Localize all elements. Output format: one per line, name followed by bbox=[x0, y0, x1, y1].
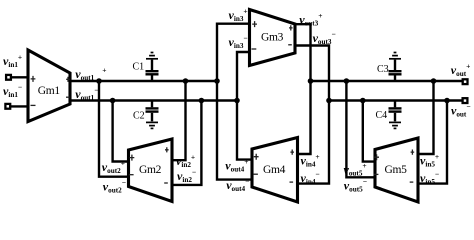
node A- : bottom bus wire bbox=[69, 99, 237, 101]
capacitor C2 bbox=[151, 101, 153, 108]
wire: A- down to v_out2+ of Gm2 bbox=[113, 101, 129, 162]
svg-text:Gm2: Gm2 bbox=[139, 164, 162, 176]
wire: v_out3+ of Gm3 to B+ and down to v_in4+ of Gm4 bbox=[295, 24, 311, 154]
junction dot B- / v_out5+ bbox=[360, 98, 366, 104]
wire: A- down to v_in2- of Gm2 bbox=[172, 101, 201, 185]
wire: A+ down to v_in2+ of Gm2 bbox=[172, 81, 186, 160]
junction dot A+ / v_out2- bbox=[96, 78, 102, 84]
op-amp Gm3 bbox=[250, 10, 296, 66]
wire: B+ down to v_in5+ of Gm5 bbox=[418, 81, 434, 154]
terminal square v_out- bbox=[463, 98, 468, 103]
capacitor C1 bbox=[151, 75, 153, 81]
junction dot B+ / v_in5+ bbox=[431, 78, 437, 84]
junction dot B- / v_out3- bbox=[326, 98, 332, 104]
wire: B+ down to v_out5- of Gm5 bbox=[346, 81, 375, 177]
wire: B- down to v_out5+ of Gm5 bbox=[363, 101, 376, 162]
junction dot A+ / v_in2+ bbox=[183, 78, 189, 84]
junction dot A- / v_in3- bbox=[234, 98, 240, 104]
capacitor C3 bbox=[394, 75, 396, 81]
node A+ : top bus wire (Gm1 output to v_in3+ drop) bbox=[69, 80, 217, 82]
svg-text:Gm3: Gm3 bbox=[261, 32, 284, 44]
terminal square v_out+ bbox=[463, 79, 468, 84]
ground below C2 bbox=[146, 122, 158, 128]
svg-text:Gm4: Gm4 bbox=[263, 164, 286, 176]
svg-text:Gm1: Gm1 bbox=[38, 85, 61, 97]
ground below C4 bbox=[389, 122, 401, 128]
wire: v_in3+ of Gm3 to A+ and down to v_out4- of Gm4 bbox=[217, 24, 253, 180]
wire: A+ down to v_out2- of Gm2 bbox=[99, 81, 129, 177]
junction dot B+ / v_out5- bbox=[344, 78, 350, 84]
ground above C3 bbox=[389, 53, 401, 59]
svg-text:C1: C1 bbox=[133, 62, 145, 73]
op-amp Gm5 bbox=[375, 138, 418, 202]
wire: input v_in1+ to Gm1 bbox=[11, 76, 29, 78]
svg-text:C2: C2 bbox=[133, 111, 145, 122]
junction dot A- / v_in2- bbox=[199, 98, 205, 104]
node B+ : top right bus wire bbox=[311, 80, 463, 82]
capacitor C4 bbox=[394, 101, 396, 108]
junction dot B+ / v_out3+ bbox=[308, 78, 314, 84]
terminal square v_in1- bbox=[5, 104, 10, 109]
wire: v_in3- of Gm3 to A- and down to v_out4+ of Gm4 bbox=[237, 52, 253, 160]
junction dot A+ / v_in3+ bbox=[214, 78, 220, 84]
svg-text:Gm5: Gm5 bbox=[384, 164, 407, 176]
wire: v_out3- of Gm3 to B- and down to v_in4- of Gm4 bbox=[295, 46, 330, 184]
junction dot B- / v_in5- bbox=[444, 98, 450, 104]
terminal square v_in1+ bbox=[6, 75, 11, 80]
node B- : bottom right bus wire bbox=[329, 99, 462, 101]
svg-text:C3: C3 bbox=[377, 64, 389, 75]
svg-text:C4: C4 bbox=[376, 110, 388, 121]
op-amp Gm1 bbox=[28, 50, 70, 122]
op-amp Gm2 bbox=[129, 139, 173, 202]
op-amp Gm4 bbox=[252, 138, 298, 203]
junction dot A- / v_out2+ bbox=[110, 98, 116, 104]
wire: B- down to v_in5- of Gm5 bbox=[418, 101, 448, 184]
wire: input v_in1- to Gm1 bbox=[11, 105, 30, 107]
ground above C1 bbox=[146, 53, 158, 59]
